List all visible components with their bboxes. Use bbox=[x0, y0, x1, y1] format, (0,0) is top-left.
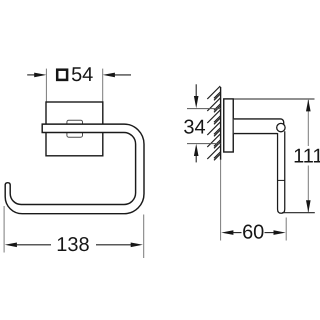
svg-text:34: 34 bbox=[183, 117, 205, 139]
svg-text:111: 111 bbox=[293, 145, 320, 167]
svg-text:138: 138 bbox=[56, 234, 89, 256]
svg-text:54: 54 bbox=[71, 64, 93, 86]
svg-text:60: 60 bbox=[242, 222, 264, 244]
